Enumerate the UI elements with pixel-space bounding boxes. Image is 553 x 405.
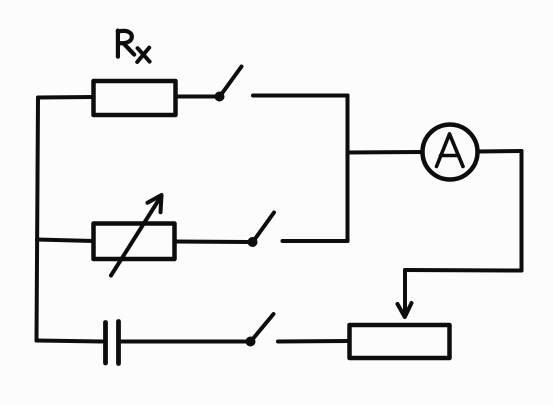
wire rheostat to switch S2: [175, 240, 250, 245]
rheostat R2 arrow: [111, 195, 162, 276]
wire mid-right vertical (node column): [346, 96, 350, 242]
rheostat R2 body: [94, 224, 175, 260]
wire node to ammeter: [348, 150, 423, 155]
wire ammeter to right: [478, 149, 522, 154]
switch S2 lever: [254, 213, 275, 242]
wire left vertical bus: [37, 98, 39, 341]
wire top branch left: [38, 95, 93, 100]
switch S1 lever: [221, 67, 242, 96]
wire right vertical: [520, 151, 524, 271]
potentiometer R3 body: [350, 325, 450, 358]
switch S3 pivot dot: [246, 337, 256, 347]
wire resistor to switch S1: [176, 95, 217, 99]
wiper arrowhead: [398, 303, 412, 317]
label R_x: [118, 31, 150, 62]
ammeter letter A: [437, 134, 464, 167]
switch S2 pivot dot: [248, 237, 258, 247]
switch S3 lever: [252, 314, 274, 341]
switch S1 pivot dot: [215, 92, 225, 102]
wire switch S3 to potentiometer: [278, 339, 348, 344]
capacitor C1 right plate: [116, 322, 121, 364]
wire wiper vertical: [403, 270, 407, 314]
wire wiper horizontal: [405, 268, 522, 273]
wire bottom branch left: [37, 341, 103, 342]
wire capacitor to switch S3: [121, 340, 247, 344]
capacitor C1 left plate: [103, 323, 108, 364]
wire switch S2 to node: [283, 239, 348, 243]
wire middle branch left: [37, 240, 93, 242]
resistor R_x: [94, 81, 176, 115]
wire switch S1 to node: [253, 94, 348, 98]
ammeter U1 circle: [423, 125, 478, 180]
